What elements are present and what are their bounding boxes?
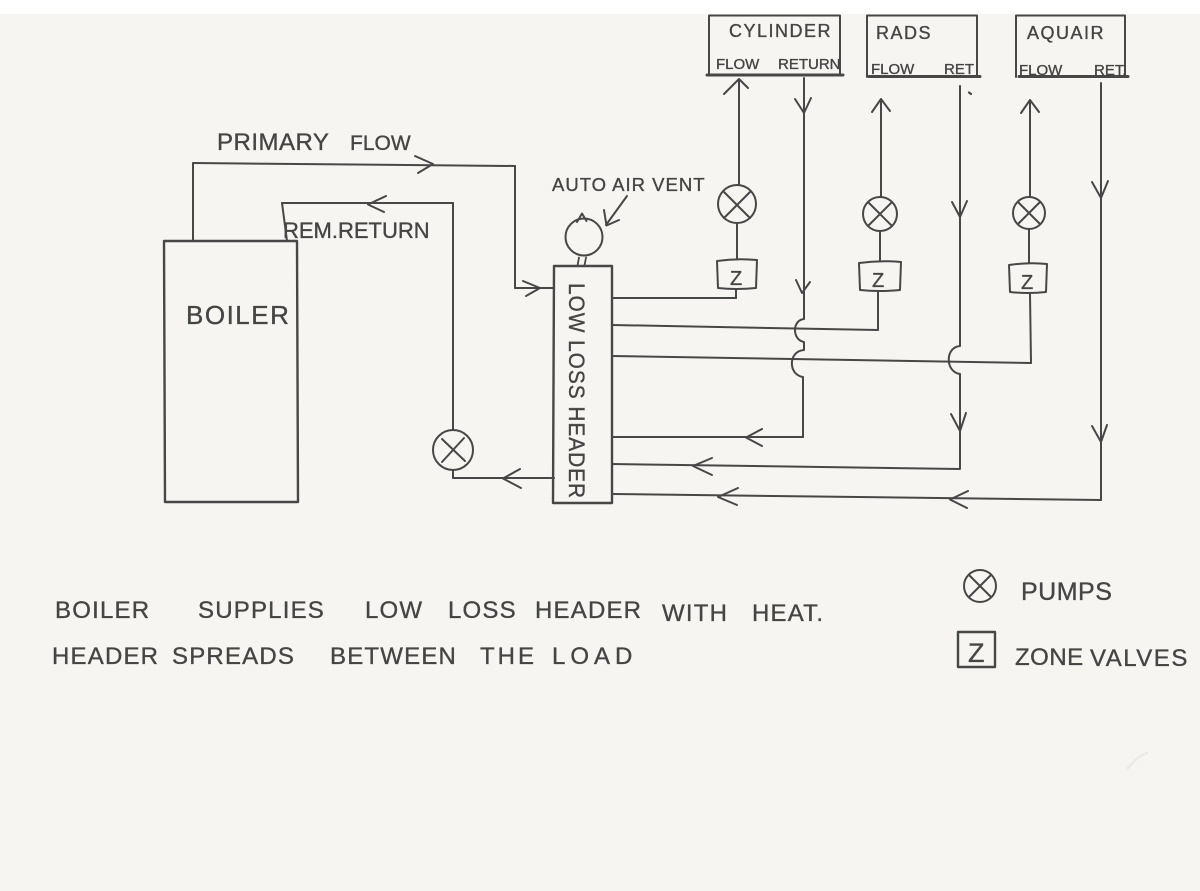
svg-text:HEAT.: HEAT. xyxy=(752,600,824,627)
zone valve Z1 cylinder xyxy=(717,259,757,289)
zone valve Z2 stub xyxy=(877,292,879,329)
arrow on rads return xyxy=(693,458,712,475)
primary flow entry stub into header xyxy=(515,287,554,289)
zone valve Z3 stub xyxy=(1030,294,1031,363)
boiler return pipe from header to pump xyxy=(453,477,554,479)
svg-text:Z: Z xyxy=(968,638,985,668)
aquair flow pipe xyxy=(1029,101,1031,197)
aquair return arrowhead upper xyxy=(1092,181,1108,198)
low loss header box xyxy=(553,266,612,503)
svg-text:FLOW: FLOW xyxy=(716,56,760,73)
zone valve Z2 rads xyxy=(859,261,901,291)
faint smudge bottom right xyxy=(1128,753,1147,768)
air vent top nib xyxy=(577,214,587,223)
pipe pump to zone valve xyxy=(736,224,738,259)
arrow on cylinder return xyxy=(746,429,762,446)
svg-text:VALVES: VALVES xyxy=(1090,645,1189,672)
svg-text:WITH: WITH xyxy=(662,600,728,627)
svg-text:BETWEEN: BETWEEN xyxy=(330,643,457,670)
cylinder return line to header xyxy=(612,436,803,438)
svg-text:FLOW: FLOW xyxy=(871,61,915,78)
rem return drop to boiler top xyxy=(282,203,287,241)
aquair flow arrowhead xyxy=(1021,100,1039,113)
aquair return line to header xyxy=(612,494,1101,500)
svg-text:FLOW: FLOW xyxy=(350,132,411,155)
rads load box xyxy=(867,16,977,78)
arrow on aquair return (right) xyxy=(950,491,968,508)
svg-text:LOSS: LOSS xyxy=(448,597,517,624)
zone valve Z3 aquair xyxy=(1009,263,1047,293)
zone valve Z1 stub xyxy=(735,290,737,298)
legend zone valve symbol xyxy=(958,632,995,667)
svg-text:SUPPLIES: SUPPLIES xyxy=(198,597,325,624)
svg-text:REM.RETURN: REM.RETURN xyxy=(283,218,430,243)
arrow on aquair return (left) xyxy=(718,488,738,505)
arrow on primary flow xyxy=(415,156,433,173)
svg-text:LOW LOSS HEADER: LOW LOSS HEADER xyxy=(564,283,589,499)
svg-text:LOW: LOW xyxy=(365,597,423,624)
svg-text:HEADER: HEADER xyxy=(52,643,159,670)
svg-text:BOILER: BOILER xyxy=(55,597,150,624)
rads flow arrowhead xyxy=(872,99,890,112)
primary flow drop to header xyxy=(514,166,516,288)
svg-text:RET.: RET. xyxy=(1094,62,1127,79)
air vent stem ticks xyxy=(578,258,587,266)
svg-text:RETURN: RETURN xyxy=(778,56,841,73)
rem return horizontal pipe xyxy=(282,202,453,204)
svg-text:RADS: RADS xyxy=(876,23,932,43)
svg-text:PUMPS: PUMPS xyxy=(1021,578,1112,606)
rads return pipe with hop xyxy=(949,86,960,468)
svg-text:SPREADS: SPREADS xyxy=(172,643,295,670)
arrow on rem return xyxy=(368,196,386,212)
cylinder flow arrowhead xyxy=(724,79,748,94)
cylinder return pipe with hops xyxy=(792,78,804,437)
aquair return arrowhead lower xyxy=(1092,425,1107,442)
svg-text:LOAD: LOAD xyxy=(552,643,637,670)
cylinder return arrowhead upper xyxy=(795,98,811,113)
primary flow riser from boiler top xyxy=(192,164,194,242)
svg-text:AUTO AIR VENT: AUTO AIR VENT xyxy=(552,174,706,195)
aquair return pipe xyxy=(1100,83,1102,500)
cylinder flow line from header xyxy=(612,297,736,299)
rads flow line from header xyxy=(612,325,878,330)
auto air vent body xyxy=(566,219,603,256)
svg-text:PRIMARY: PRIMARY xyxy=(217,129,329,156)
aquair load box xyxy=(1016,16,1125,78)
svg-text:ZONE: ZONE xyxy=(1015,644,1084,671)
caption line 2 xyxy=(52,643,637,670)
primary flow horizontal pipe xyxy=(193,163,515,166)
svg-text:Z: Z xyxy=(730,268,742,290)
legend pump symbol xyxy=(964,570,996,602)
pump P2 rads xyxy=(863,197,897,231)
caption line 1 xyxy=(55,597,824,627)
cylinder flow pipe xyxy=(738,80,740,187)
stray dot near rads return xyxy=(969,93,971,95)
pump P0 boiler circuit xyxy=(433,430,473,470)
pump P3 aquair xyxy=(1013,197,1045,229)
svg-text:AQUAIR: AQUAIR xyxy=(1027,23,1105,43)
cylinder load box xyxy=(709,16,840,76)
arrow into header xyxy=(523,281,540,296)
rads return arrowhead lower xyxy=(951,413,966,431)
svg-text:FLOW: FLOW xyxy=(1019,62,1063,79)
aquair flow line from header xyxy=(612,356,1031,363)
svg-text:CYLINDER: CYLINDER xyxy=(729,21,832,41)
pipe pump to zone valve xyxy=(879,231,881,262)
svg-text:THE: THE xyxy=(480,643,537,670)
rem return vertical down to pump xyxy=(452,203,454,478)
rads return arrowhead upper xyxy=(952,201,967,217)
rads return line to header xyxy=(612,464,960,469)
label arrow to air vent xyxy=(606,196,627,225)
svg-text:BOILER: BOILER xyxy=(186,300,290,330)
cylinder return arrowhead lower xyxy=(796,280,810,293)
svg-text:Z: Z xyxy=(1021,272,1033,294)
pipe pump to zone valve xyxy=(1028,229,1030,264)
rads flow pipe xyxy=(880,100,882,198)
boiler box xyxy=(164,241,298,502)
arrow on boiler return xyxy=(503,469,521,488)
svg-text:Z: Z xyxy=(872,270,884,292)
svg-text:RET: RET xyxy=(944,61,974,78)
pump P1 cylinder xyxy=(718,185,756,223)
svg-text:HEADER: HEADER xyxy=(535,597,642,624)
